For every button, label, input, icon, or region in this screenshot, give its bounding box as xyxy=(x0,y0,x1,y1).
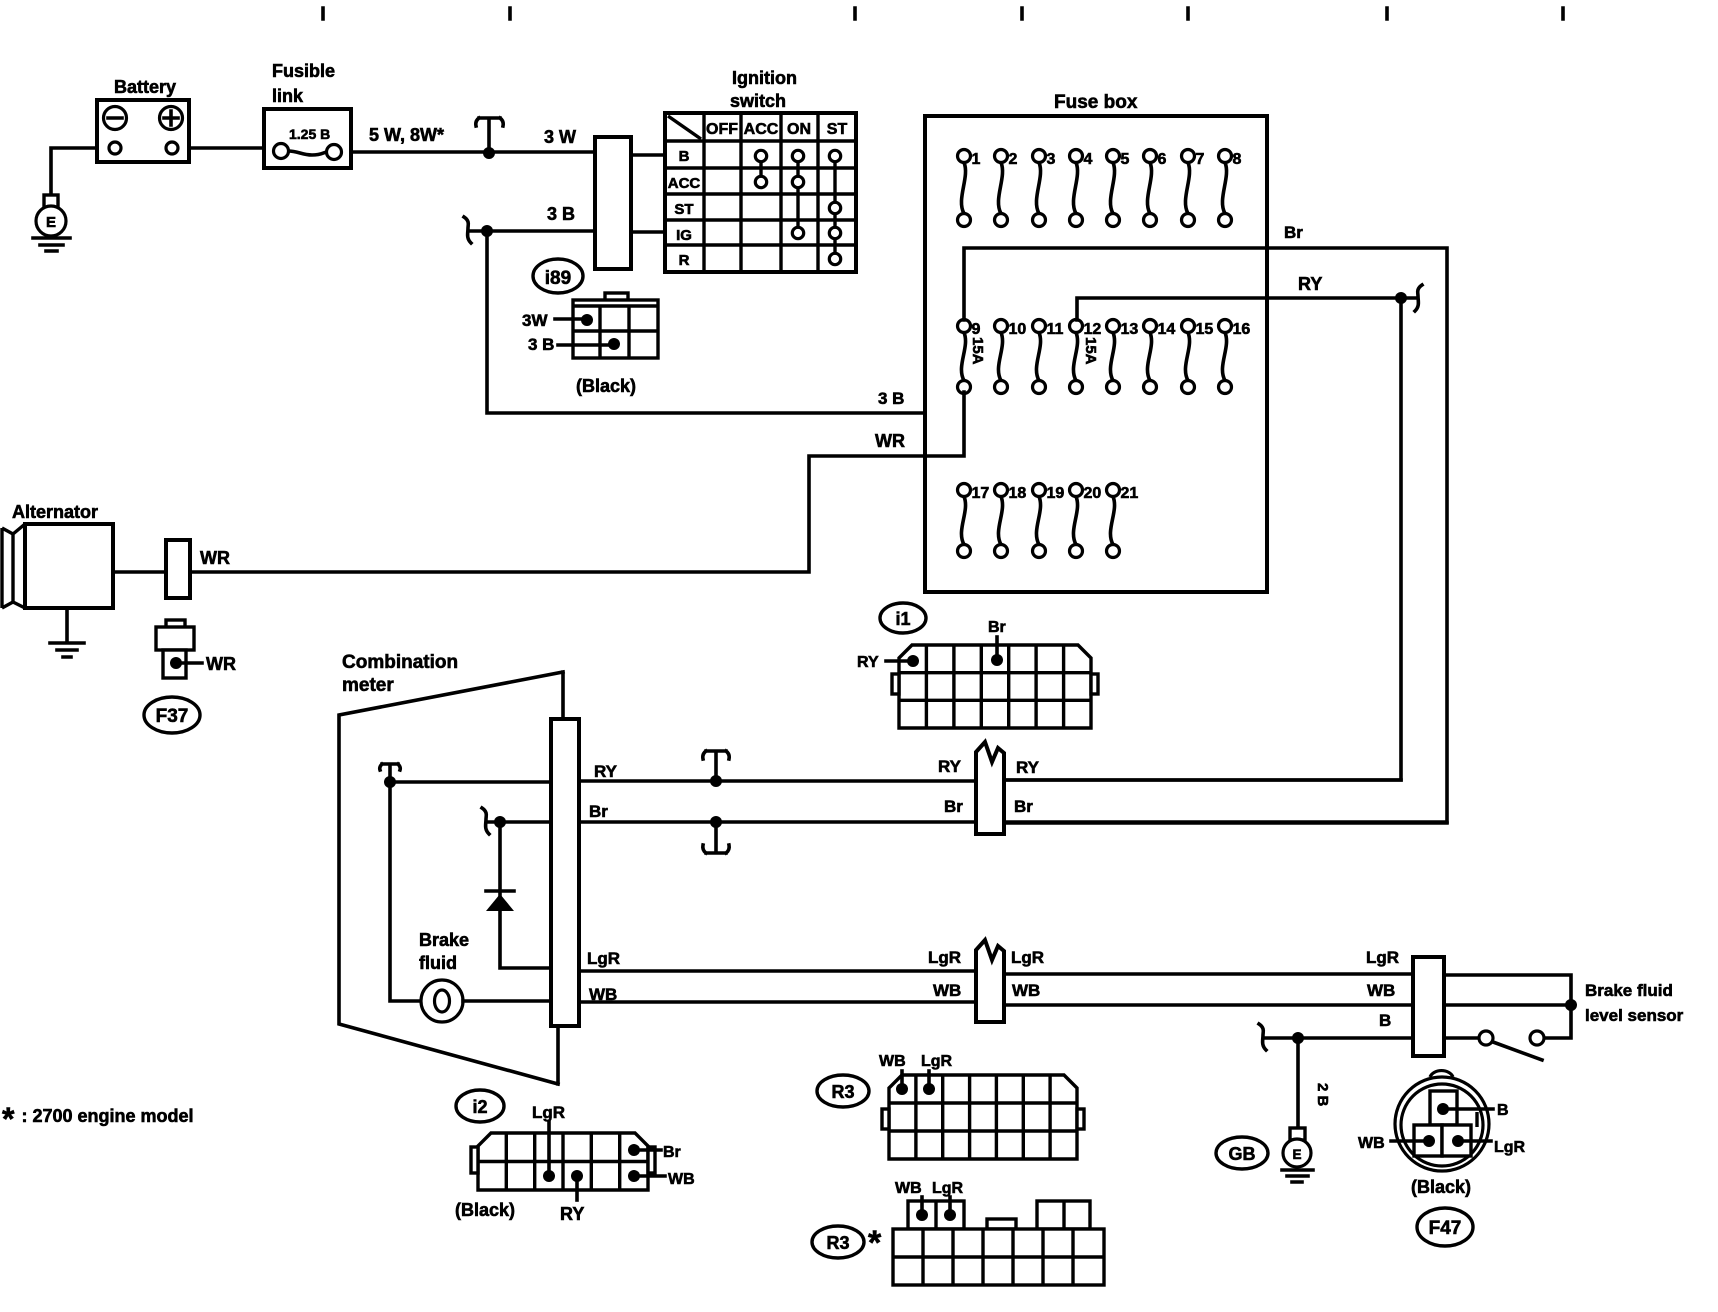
svg-text:WB: WB xyxy=(1012,981,1040,1000)
diode branch vertical xyxy=(500,822,551,968)
svg-text:LgR: LgR xyxy=(587,949,620,968)
connector F37 body xyxy=(156,620,194,678)
i1 oval xyxy=(880,603,926,633)
wire WR from alternator up to fuse 9 xyxy=(190,392,964,572)
fuse 12 xyxy=(1070,320,1102,394)
svg-text:WB: WB xyxy=(1358,1135,1385,1152)
wire RY connector to right xyxy=(1004,778,1401,782)
F47 pin WB xyxy=(1391,1139,1429,1143)
svg-text:IG: IG xyxy=(676,227,692,244)
svg-text:B: B xyxy=(679,148,690,165)
wire 5W,8W* fusible link to ignition connector xyxy=(351,150,595,154)
wire Br inside meter to diode xyxy=(487,820,551,824)
wire LgR right of sensor connector xyxy=(1444,975,1571,1005)
svg-text:6: 6 xyxy=(1158,151,1167,168)
svg-text:12: 12 xyxy=(1084,321,1102,338)
svg-text:(Black): (Black) xyxy=(576,376,636,396)
i2 pin RY xyxy=(575,1179,579,1200)
fuse 13 xyxy=(1107,320,1139,394)
svg-text:ST: ST xyxy=(674,201,693,218)
svg-text:10: 10 xyxy=(1009,321,1027,338)
fuse 6 xyxy=(1144,150,1167,227)
fuse 18 xyxy=(995,484,1027,558)
svg-text:meter: meter xyxy=(342,675,394,696)
svg-text:switch: switch xyxy=(730,91,786,111)
wire-end curl at 3B xyxy=(464,217,471,243)
connector bar WR (alternator) xyxy=(166,540,190,598)
fuse box xyxy=(925,116,1267,592)
svg-text:13: 13 xyxy=(1121,321,1139,338)
R3 pin LgR xyxy=(927,1071,931,1086)
switch blade xyxy=(1493,1042,1542,1060)
wire 3B down and right to fuse 12 xyxy=(487,231,1077,413)
svg-text:GB: GB xyxy=(1229,1144,1256,1164)
connector tap symbol above junction xyxy=(476,118,503,150)
svg-text:1.25 B: 1.25 B xyxy=(289,126,330,142)
wire B row left of sensor connector xyxy=(1265,1036,1413,1040)
svg-text:WB: WB xyxy=(933,981,961,1000)
i89 pin 3W xyxy=(555,317,585,321)
svg-text:Br: Br xyxy=(1014,797,1033,816)
svg-text:i1: i1 xyxy=(895,609,910,629)
svg-text:(Black): (Black) xyxy=(455,1200,515,1220)
fuse 14 xyxy=(1144,320,1176,394)
svg-text:20: 20 xyxy=(1084,485,1102,502)
svg-text:19: 19 xyxy=(1047,485,1065,502)
combination meter connector bar xyxy=(551,719,579,1026)
svg-text:*: * xyxy=(868,1224,882,1262)
switch contact left xyxy=(1479,1031,1493,1045)
connector tap above meter RY xyxy=(380,764,401,780)
connector bar at brake fluid level sensor xyxy=(1413,957,1444,1056)
fuse 10 xyxy=(995,320,1027,394)
svg-text:Alternator: Alternator xyxy=(12,502,98,522)
fuse 15 xyxy=(1182,320,1214,394)
svg-text:ACC: ACC xyxy=(668,175,701,192)
svg-text:F47: F47 xyxy=(1429,1218,1462,1239)
svg-text:3 B: 3 B xyxy=(878,389,904,408)
fuse 16 xyxy=(1219,320,1251,394)
svg-text:LgR: LgR xyxy=(932,1180,964,1197)
svg-text:Ignition: Ignition xyxy=(732,68,797,88)
svg-text:B: B xyxy=(1497,1102,1509,1119)
svg-text:E: E xyxy=(1292,1147,1301,1162)
svg-text:LgR: LgR xyxy=(928,948,961,967)
svg-text:link: link xyxy=(272,86,304,106)
F47 pin B xyxy=(1443,1107,1493,1111)
F37 pin WR xyxy=(176,661,202,665)
svg-text:WB: WB xyxy=(895,1180,922,1197)
wire 2B to ground xyxy=(1296,1038,1300,1128)
wire RY inside meter xyxy=(390,780,551,784)
svg-text:OFF: OFF xyxy=(706,121,738,138)
wire RY down to meter row xyxy=(1004,298,1401,780)
svg-text:3 W: 3 W xyxy=(544,127,576,147)
connector i2 grid xyxy=(471,1133,655,1190)
svg-text:Battery: Battery xyxy=(114,77,176,97)
svg-text:9: 9 xyxy=(972,321,981,338)
wire RY from fuse 12 top to right xyxy=(1077,298,1401,320)
fuse 4 xyxy=(1070,150,1093,227)
i1 pin RY xyxy=(886,659,910,663)
junction node diode top xyxy=(494,816,506,828)
svg-text:RY: RY xyxy=(560,1204,584,1224)
fuse 21 xyxy=(1107,484,1139,558)
connector F47 round body xyxy=(1395,1071,1489,1171)
svg-text:fluid: fluid xyxy=(419,953,457,973)
svg-text:Br: Br xyxy=(589,802,608,821)
svg-text:LgR: LgR xyxy=(1494,1139,1526,1156)
alternator xyxy=(2,524,113,608)
fuse 9 xyxy=(958,320,981,394)
fuse 11 xyxy=(1033,320,1064,394)
svg-text:Combination: Combination xyxy=(342,652,458,673)
connector R3* grid xyxy=(893,1201,1104,1285)
ignition switch table xyxy=(665,113,856,272)
wire ticks top margin xyxy=(323,8,1563,19)
svg-text:1: 1 xyxy=(972,151,981,168)
svg-text:14: 14 xyxy=(1158,321,1176,338)
fuse 19 xyxy=(1033,484,1065,558)
junction node sensor xyxy=(1565,999,1577,1011)
svg-text:F37: F37 xyxy=(156,706,189,727)
svg-text:R: R xyxy=(679,252,690,269)
connector bar LgR/WB with latch xyxy=(976,940,1004,1022)
wire WB right of sensor connector xyxy=(1444,1003,1571,1007)
svg-text:15: 15 xyxy=(1196,321,1214,338)
fusible link xyxy=(264,109,351,168)
svg-text:Br: Br xyxy=(663,1144,681,1161)
svg-text:3 B: 3 B xyxy=(528,335,554,354)
R3* pin LgR xyxy=(948,1197,952,1212)
wire LgR connector to sensor connector xyxy=(1004,972,1413,976)
i1 pin Br xyxy=(995,637,999,658)
svg-text:WR: WR xyxy=(875,431,905,451)
wire Br connector to right xyxy=(1004,821,1447,825)
wire WB meter to connector xyxy=(579,1000,976,1004)
fuse 2 xyxy=(995,150,1018,227)
F47 oval xyxy=(1417,1208,1473,1246)
wire bar to ignition IG xyxy=(631,230,665,234)
F47 pin LgR xyxy=(1458,1139,1491,1143)
svg-text:B: B xyxy=(1379,1011,1391,1030)
svg-text:3: 3 xyxy=(1047,151,1056,168)
svg-text:Brake: Brake xyxy=(419,930,469,950)
svg-text:17: 17 xyxy=(972,485,990,502)
combination meter outline xyxy=(339,672,563,1084)
wire-end curl at diode branch xyxy=(482,808,489,834)
svg-text:Br: Br xyxy=(1284,223,1303,242)
diode D xyxy=(486,891,514,911)
svg-text:ON: ON xyxy=(787,121,811,138)
svg-text:3 B: 3 B xyxy=(547,204,575,224)
svg-text:RY: RY xyxy=(594,762,618,781)
wire-end curl at RY right xyxy=(1401,285,1422,311)
svg-text:i2: i2 xyxy=(472,1097,487,1117)
R3* oval xyxy=(812,1226,864,1258)
connector bar at ignition switch xyxy=(595,137,631,269)
svg-text:3W: 3W xyxy=(522,311,548,330)
i2 oval xyxy=(456,1090,504,1122)
wire alternator to WR connector xyxy=(113,570,166,574)
wire RY meter to connector xyxy=(579,779,976,783)
i2 pin WB xyxy=(634,1174,665,1178)
svg-text:2: 2 xyxy=(1009,151,1018,168)
svg-text:Fusible: Fusible xyxy=(272,61,335,81)
fuse 7 xyxy=(1182,150,1205,227)
svg-text:15A: 15A xyxy=(1082,337,1099,365)
connector R3 grid xyxy=(882,1075,1084,1159)
wire battery negative to ground xyxy=(51,148,97,196)
brake fluid warning lamp xyxy=(421,980,463,1022)
svg-text:18: 18 xyxy=(1009,485,1027,502)
ground E (GB) xyxy=(1282,1128,1313,1182)
svg-text:5: 5 xyxy=(1121,151,1130,168)
alternator ground xyxy=(50,608,84,657)
fuse 3 xyxy=(1033,150,1056,227)
i89 pin 3B xyxy=(558,343,612,347)
svg-text:i89: i89 xyxy=(545,268,571,289)
svg-text:LgR: LgR xyxy=(532,1103,565,1122)
svg-text:LgR: LgR xyxy=(921,1053,953,1070)
svg-text:Fuse box: Fuse box xyxy=(1054,92,1138,113)
svg-text:WB: WB xyxy=(668,1171,695,1188)
wire Br from fuse 9 top to right and down to combination meter row xyxy=(964,248,1447,822)
svg-text:LgR: LgR xyxy=(1366,948,1399,967)
svg-text:Br: Br xyxy=(944,797,963,816)
wire battery to fusible link xyxy=(189,146,264,150)
svg-text:Brake fluid: Brake fluid xyxy=(1585,981,1673,1000)
i2 pin LgR xyxy=(547,1122,551,1173)
GB oval xyxy=(1216,1137,1268,1169)
svg-text:7: 7 xyxy=(1196,151,1205,168)
svg-text:WB: WB xyxy=(1367,981,1395,1000)
F37 oval xyxy=(144,697,200,733)
wire 3B from bar to junction xyxy=(470,229,595,233)
svg-text:16: 16 xyxy=(1233,321,1251,338)
fuse 5 xyxy=(1107,150,1130,227)
wire Br meter to connector xyxy=(579,820,976,824)
svg-text:RY: RY xyxy=(1016,758,1040,777)
fuse 1 xyxy=(958,150,981,227)
svg-text:11: 11 xyxy=(1047,321,1064,338)
svg-text:15A: 15A xyxy=(969,337,986,365)
svg-text:21: 21 xyxy=(1121,485,1139,502)
connector i89 xyxy=(573,293,658,358)
svg-text:(Black): (Black) xyxy=(1411,1177,1471,1197)
svg-text:R3: R3 xyxy=(831,1082,854,1102)
svg-text:WB: WB xyxy=(879,1053,906,1070)
fuse 8 xyxy=(1219,150,1242,227)
fuse 17 xyxy=(958,484,990,558)
sensor switch wire B xyxy=(1444,1005,1571,1038)
svg-text:RY: RY xyxy=(938,757,962,776)
svg-text:level sensor: level sensor xyxy=(1585,1006,1684,1025)
fuse 20 xyxy=(1070,484,1102,558)
wire lamp feed down xyxy=(390,782,421,1001)
connector bar RY/Br with latch xyxy=(976,742,1004,834)
svg-text:WR: WR xyxy=(200,548,230,568)
wire LgR meter to connector xyxy=(579,969,976,973)
svg-text:5 W, 8W*: 5 W, 8W* xyxy=(369,125,444,145)
svg-text:R3: R3 xyxy=(826,1233,849,1253)
junction node on 3W line xyxy=(483,147,495,159)
svg-text:RY: RY xyxy=(1298,274,1322,294)
R3* pin WB xyxy=(920,1197,924,1212)
svg-text:WR: WR xyxy=(206,654,236,674)
svg-text:4: 4 xyxy=(1084,151,1093,168)
ground E (battery) xyxy=(33,195,70,251)
connector tap below Br row xyxy=(703,824,729,853)
junction node 2B xyxy=(1292,1032,1304,1044)
i2 pin Br xyxy=(634,1148,661,1152)
wire lamp to meter bar WB xyxy=(463,999,551,1003)
svg-text:8: 8 xyxy=(1233,151,1242,168)
connector i1 grid xyxy=(892,645,1098,728)
junction node Br row xyxy=(710,816,722,828)
svg-text:LgR: LgR xyxy=(1011,948,1044,967)
connector tap above RY row xyxy=(703,751,729,779)
R3 oval xyxy=(817,1075,869,1107)
wire WB connector to sensor connector xyxy=(1004,1003,1413,1007)
junction node meter RY xyxy=(384,776,396,788)
R3 pin WB xyxy=(900,1071,904,1086)
svg-text:ACC: ACC xyxy=(744,121,779,138)
junction node RY xyxy=(1395,292,1407,304)
svg-text:ST: ST xyxy=(827,121,848,138)
junction node RY row xyxy=(710,775,722,787)
svg-text:2 B: 2 B xyxy=(1314,1083,1331,1107)
wire-end curl at B row xyxy=(1259,1024,1266,1050)
battery xyxy=(97,100,189,162)
svg-text:RY: RY xyxy=(857,654,879,671)
junction node 3B xyxy=(481,225,493,237)
switch contact right xyxy=(1530,1031,1544,1045)
svg-text:E: E xyxy=(46,214,56,231)
svg-text:Br: Br xyxy=(988,619,1006,636)
wire bar to ignition B xyxy=(631,153,665,157)
i89 oval xyxy=(533,259,583,293)
